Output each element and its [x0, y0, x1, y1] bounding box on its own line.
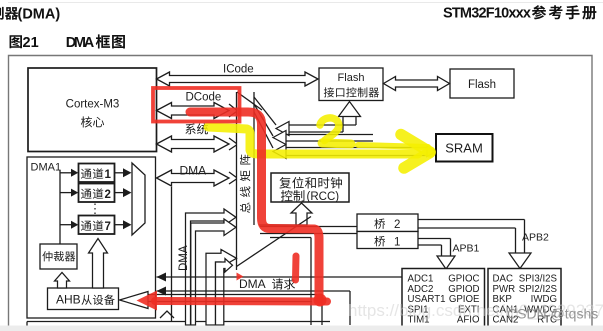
- svg-text:2: 2: [105, 189, 111, 201]
- svg-text:APB1: APB1: [453, 243, 480, 255]
- svg-text:1: 1: [105, 169, 112, 181]
- svg-text:DMA: DMA: [239, 277, 266, 291]
- svg-text:DCode: DCode: [186, 92, 222, 104]
- svg-text:SRAM: SRAM: [445, 141, 483, 156]
- svg-text:21: 21: [23, 35, 39, 51]
- svg-text:ICode: ICode: [223, 64, 254, 76]
- svg-text:CSDN @tqshs: CSDN @tqshs: [507, 306, 598, 322]
- svg-text:2: 2: [394, 219, 400, 231]
- svg-text:(DMA): (DMA): [18, 7, 61, 23]
- svg-text:DMA: DMA: [66, 35, 95, 51]
- svg-text:AHB: AHB: [56, 293, 81, 307]
- svg-text:Flash: Flash: [468, 79, 496, 91]
- svg-text:APB2: APB2: [522, 232, 549, 244]
- svg-text:7: 7: [105, 221, 111, 233]
- svg-text:STM32F10xxx: STM32F10xxx: [443, 6, 531, 22]
- svg-text:(RCC): (RCC): [307, 191, 340, 203]
- svg-text:DMA1: DMA1: [31, 162, 62, 174]
- svg-text:DMA: DMA: [180, 164, 207, 178]
- svg-text:1: 1: [394, 237, 400, 249]
- svg-text:DMA: DMA: [178, 245, 190, 271]
- svg-text:Cortex-M3: Cortex-M3: [66, 99, 120, 111]
- svg-text:Flash: Flash: [338, 72, 365, 84]
